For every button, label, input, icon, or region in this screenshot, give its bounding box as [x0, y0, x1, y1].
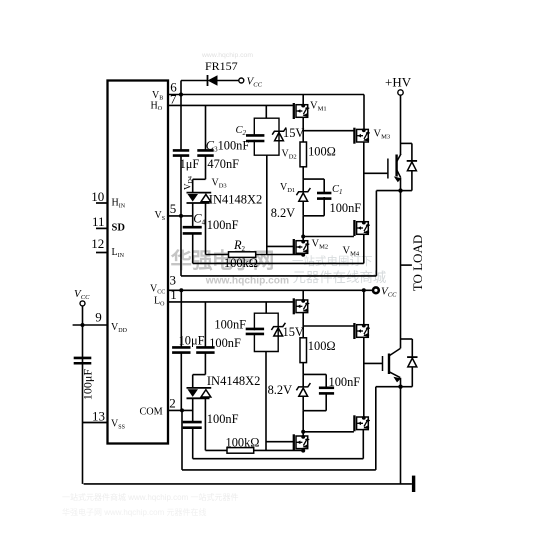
wire outer loop bottom (upper) — [181, 275, 376, 277]
wire lower cap down — [325, 393, 327, 411]
wire VCC to lower M3 drain — [363, 290, 365, 324]
svg-text:100nF: 100nF — [207, 412, 239, 426]
resistor 100R (upper) — [300, 142, 307, 167]
terminal Vcc (top) — [239, 78, 244, 83]
wire C2/VD2 box outline — [254, 118, 279, 155]
capacitor 100nF (lower C3) — [196, 347, 214, 352]
svg-text:9: 9 — [95, 309, 102, 324]
node VS junction — [179, 214, 183, 218]
wire VCC to lower M1 drain — [302, 290, 304, 300]
wire C1 down — [323, 197, 325, 216]
svg-text:元器件在线商城: 元器件在线商城 — [293, 270, 387, 285]
wire to lower zener — [302, 374, 304, 387]
wire phase rail to IGBT2 — [400, 191, 402, 349]
svg-text:100nF: 100nF — [330, 201, 362, 215]
wire COM pin — [168, 409, 193, 411]
wire HO down to C2 box — [265, 105, 267, 118]
pin 12 stub L_IN — [96, 252, 108, 254]
svg-text:8.2V: 8.2V — [271, 206, 295, 220]
wire down to 100k (lower) — [204, 398, 206, 450]
svg-text:15V: 15V — [283, 325, 304, 339]
wire VCC rail — [168, 289, 372, 291]
capacitor 100nF (lower combo) — [319, 388, 334, 394]
transistor lower M3 — [354, 323, 370, 339]
wire to lower M4 gate — [303, 431, 354, 433]
wire D1 anode lead — [411, 171, 413, 191]
wire to VD1 — [302, 179, 304, 192]
wire C4 down to inner loop — [192, 234, 194, 264]
svg-text:www.hqchip.com: www.hqchip.com — [201, 52, 253, 59]
svg-text:100Ω: 100Ω — [308, 339, 336, 353]
svg-text:IN4148X2: IN4148X2 — [209, 193, 262, 207]
capacitor 1uF — [173, 150, 189, 155]
wire FR157 down to VB — [180, 81, 182, 95]
transistor lower M4 — [354, 415, 370, 431]
svg-text:1μF: 1μF — [180, 157, 200, 171]
wire to freewheel D1 — [401, 142, 412, 144]
node VM2 source junction — [301, 253, 305, 257]
resistor R2 100k (upper) — [229, 252, 256, 258]
diode lower-left (down) — [187, 387, 212, 389]
wire LO to lower M1 gate — [168, 301, 293, 303]
svg-text:华强电子网: 华强电子网 — [171, 248, 274, 273]
wire to lower M3 gate — [303, 325, 354, 327]
wire combo to lower M2 drain — [302, 411, 304, 436]
wire combo to VM2 drain — [302, 216, 304, 241]
wire to 100k left — [205, 449, 227, 451]
svg-text:2: 2 — [242, 245, 246, 253]
pin 10 stub H_IN — [96, 202, 108, 204]
svg-text:IN4148X2: IN4148X2 — [207, 374, 260, 388]
wire VCC down to 10uF — [180, 290, 182, 347]
wire VS pin — [168, 215, 193, 217]
svg-text:SD: SD — [112, 223, 126, 234]
svg-text:1: 1 — [170, 287, 177, 302]
wire LO down to lower box — [265, 302, 267, 313]
wire to COM wire and cap — [192, 398, 194, 422]
svg-text:C3100nF: C3100nF — [206, 139, 250, 154]
wire outer loop left (lower) — [181, 410, 183, 470]
wire VB to VM1 drain — [302, 95, 304, 105]
svg-text:100kΩ: 100kΩ — [224, 256, 258, 270]
wire VB rail — [168, 94, 364, 96]
wire to freewheel D2 — [401, 338, 413, 340]
svg-text:15V: 15V — [283, 126, 304, 140]
wire VB down to VM3 drain — [363, 95, 365, 130]
svg-text:一站式元器件商城 www.hqchip.com 一站式元器: 一站式元器件商城 www.hqchip.com 一站式元器件 — [62, 492, 238, 502]
wire to VM3 gate — [303, 130, 354, 132]
wire outer loop right (lower) — [375, 387, 377, 470]
diode FR157 — [208, 75, 239, 86]
wire VD1 to combo bottom — [302, 201, 304, 215]
wire lower box bottom to 100k wire — [265, 352, 267, 451]
wire to VM2 gate — [267, 245, 293, 247]
capacitor C4 100nF — [183, 227, 202, 233]
transistor lower M2 — [294, 434, 310, 450]
svg-text:10μF: 10μF — [179, 334, 205, 348]
wire VM3 source to VM4 drain — [363, 142, 365, 221]
wire lower C/zener box outline — [254, 313, 278, 351]
capacitor 100uF — [74, 358, 92, 363]
wire lower combo top bar — [303, 373, 326, 375]
terminal VCC (mid) — [373, 287, 379, 293]
wire down to VD4 — [192, 179, 194, 192]
wire outer loop left (upper) — [180, 216, 182, 276]
wire D2 to emitter — [401, 386, 413, 388]
wire LO down to 100nF — [204, 302, 206, 348]
wire inner loop up to lower M4 — [362, 430, 364, 459]
wire Vcc left down to ground rail — [82, 306, 84, 484]
node COM junction — [180, 408, 184, 412]
freewheel diode D2 (lower) — [407, 356, 417, 358]
transistor lower M1 — [294, 298, 310, 314]
wire VD3 down to R2 — [205, 203, 207, 255]
wire pin 13 VSS — [83, 422, 108, 424]
op-amp/driver IC U1 box — [108, 81, 169, 444]
pin 11 stub SD — [96, 227, 108, 229]
wire inner loop bottom (lower) — [193, 458, 364, 460]
svg-text:11: 11 — [92, 214, 105, 229]
wire to IGBT2 gate — [364, 362, 382, 364]
wire box bottom to R2 wire — [266, 155, 268, 254]
transistor VM1 — [294, 103, 310, 119]
svg-text:+HV: +HV — [385, 75, 412, 90]
svg-text:8.2V: 8.2V — [268, 383, 292, 397]
svg-text:12: 12 — [91, 236, 104, 251]
wire HO to VM1 gate — [168, 104, 293, 106]
wire to R2 left — [206, 254, 229, 256]
wire lower M1 source down — [302, 313, 304, 338]
resistor 100k (lower) — [227, 448, 254, 454]
wire lower zener to combo bottom — [302, 397, 304, 411]
wire VD4 to VS wire and C4 — [192, 203, 194, 227]
wire inner loop bottom (upper) — [193, 262, 364, 264]
terminal Vcc (left) — [80, 301, 85, 306]
wire VB down to C 1uF — [180, 95, 182, 151]
node VCC junction left — [179, 288, 183, 292]
wire IGBT2 emitter to ground rail — [400, 387, 402, 484]
wire combo bottom bar — [303, 215, 324, 217]
freewheel diode D1 (upper) — [407, 160, 417, 162]
diode VD3 (right, up) — [187, 202, 210, 204]
wire +HV down to IGBT1 collector — [400, 95, 402, 155]
wire emitter to outer loop (upper) — [376, 190, 400, 192]
wire D1 cathode lead — [411, 143, 413, 161]
zener diode 8.2V (lower) — [296, 383, 310, 396]
svg-text:10: 10 — [91, 189, 104, 204]
terminal +HV — [398, 90, 403, 95]
wire VM1 source down — [302, 117, 304, 142]
resistor 100R (lower) — [300, 338, 307, 363]
wire HO down to C3 — [205, 105, 207, 150]
svg-text:100nF: 100nF — [207, 218, 239, 232]
wire D2 cathode lead — [411, 339, 413, 357]
wire D1 to emitter — [401, 190, 412, 192]
wire 100R to lower combo — [302, 363, 304, 375]
wire combo top bar — [303, 178, 324, 180]
capacitor 100nF (lower box) — [246, 329, 264, 334]
wire lower combo bottom bar — [303, 410, 326, 412]
node emitter junction (lower) — [398, 385, 402, 389]
wire to lower cap — [325, 374, 327, 388]
node VCC junction right — [362, 288, 366, 292]
capacitor 100nF (COM) — [183, 422, 202, 428]
diode VD4 (left, down) — [187, 192, 212, 194]
svg-text:TO LOAD: TO LOAD — [410, 235, 425, 291]
node VM4 gate junction — [301, 235, 305, 239]
wire Vcc to FR157 cathode — [181, 80, 208, 82]
wire 100R to zener combo — [302, 167, 304, 179]
wire to lower M2 gate — [266, 441, 293, 443]
wire 100k right to lower M2 source — [254, 449, 304, 451]
transistor VM2 — [294, 239, 310, 255]
capacitor 10uF — [172, 347, 190, 352]
svg-text:100nF: 100nF — [329, 375, 361, 389]
svg-text:www.hqchip.com: www.hqchip.com — [205, 276, 289, 287]
svg-text:5: 5 — [170, 201, 177, 216]
wire ground rail — [84, 483, 412, 485]
wire cap down to inner loop (lower) — [192, 428, 194, 459]
svg-text:2: 2 — [169, 396, 176, 411]
wire to C1 — [323, 179, 325, 192]
wire pin 9 VDD — [73, 324, 108, 326]
svg-text:100nF: 100nF — [209, 336, 241, 350]
svg-text:7: 7 — [170, 91, 177, 106]
IGBT Q2 (lower) — [383, 348, 402, 382]
transistor VM3 — [354, 128, 370, 144]
svg-text:3: 3 — [170, 272, 177, 287]
zener diode VD2 15V — [272, 128, 286, 141]
ground — [412, 476, 415, 492]
IGBT Q1 (upper) — [388, 154, 401, 182]
svg-text:100kΩ: 100kΩ — [226, 436, 260, 450]
svg-text:100μF: 100μF — [81, 369, 95, 400]
svg-text:470nF: 470nF — [207, 157, 239, 171]
zener diode VD1 8.2V — [296, 188, 310, 201]
wire down to lower VD4 — [192, 375, 194, 388]
zener diode 15V (lower) — [271, 323, 285, 336]
node VDD junction — [81, 323, 85, 327]
wire to VM4 gate — [303, 236, 354, 238]
svg-text:COM: COM — [140, 406, 163, 417]
node lower M2 source junction — [301, 449, 305, 453]
svg-text:100Ω: 100Ω — [308, 145, 336, 159]
wire outer loop right (upper) — [375, 191, 377, 276]
svg-text:13: 13 — [92, 408, 105, 423]
wire TO LOAD tap — [401, 264, 412, 266]
wire emitter to outer loop (lower) — [376, 386, 401, 388]
node phase junction (upper) — [398, 188, 402, 192]
wire R2 right to VM2 source — [256, 254, 304, 256]
wire 10uF to COM — [180, 353, 182, 411]
node VB junction — [179, 93, 183, 97]
svg-text:华强电子网 www.hqchip.com 元器: 华强电子网 www.hqchip.com 元器件在线 — [62, 507, 206, 517]
wire diode pair top bar (lower) — [193, 374, 206, 376]
capacitor C1 100nF — [317, 193, 331, 199]
capacitor C3 470nF — [197, 150, 213, 155]
wire inner loop up to VM4 source — [363, 235, 365, 264]
wire to IGBT1 gate — [364, 172, 388, 174]
wire lower M3 source to M4 drain — [363, 338, 365, 417]
capacitor C2 100nF — [246, 135, 264, 141]
wire 1uF to VS — [180, 155, 182, 216]
transistor VM4 — [354, 220, 370, 236]
wire outer loop bottom (lower) — [182, 469, 376, 471]
node lower M4 gate junction — [301, 430, 305, 434]
diode lower-right (up) — [187, 397, 210, 399]
wire D2 anode lead — [411, 367, 413, 387]
wire C3 down to diode pair — [205, 155, 207, 179]
svg-text:100nF: 100nF — [214, 318, 246, 332]
svg-text:FR157: FR157 — [205, 59, 238, 73]
wire 100nF down to diode pair — [204, 353, 206, 375]
wire diode pair top bar — [193, 178, 206, 180]
wire IGBT1 emitter down — [400, 178, 402, 191]
wire IGBT2 emitter down — [400, 378, 402, 387]
